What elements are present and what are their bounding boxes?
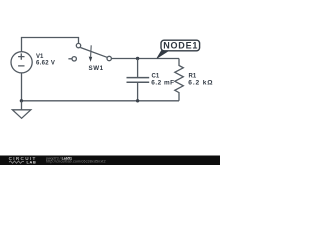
svg-text:6.2 kΩ: 6.2 kΩ — [188, 79, 213, 86]
capacitor C1 — [127, 59, 150, 101]
svg-text:LAB: LAB — [27, 160, 37, 164]
svg-text:NODE1: NODE1 — [163, 41, 198, 51]
junction dot top rail at C1 — [136, 57, 139, 60]
svg-text:http://circuitlab.com/c6c38xd5: http://circuitlab.com/c6c38xd5nxt2 — [46, 160, 106, 164]
CircuitLab logo — [9, 156, 37, 164]
svg-text:SW1: SW1 — [89, 65, 104, 72]
NODE1 flag — [157, 40, 200, 58]
wire from V1 bottom to ground junction — [21, 73, 23, 101]
resistor R1 — [175, 59, 184, 101]
junction dot bottom at C1 — [136, 99, 139, 102]
footer bar — [0, 156, 220, 166]
top rail wire from switch to R1 — [111, 58, 179, 60]
svg-text:6.2 mF: 6.2 mF — [151, 79, 174, 86]
switch SW1 — [68, 43, 111, 62]
svg-text:V1: V1 — [36, 54, 44, 60]
svg-text:6.62 V: 6.62 V — [36, 60, 55, 66]
voltage source V1 — [11, 52, 32, 73]
ground — [12, 101, 30, 119]
bottom rail wire — [21, 100, 179, 102]
junction dot bottom left — [20, 99, 23, 102]
wire from V1 top to switch — [22, 38, 79, 52]
